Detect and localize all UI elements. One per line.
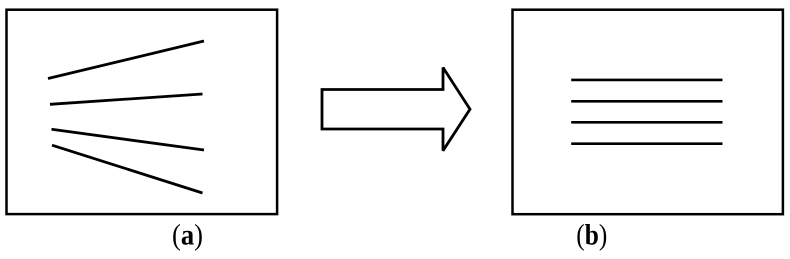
parallel line 3 — [571, 121, 722, 124]
parallel line 1 (top) — [571, 79, 722, 82]
fan line 1 (top) — [48, 41, 204, 79]
fan line 2 — [50, 94, 203, 104]
svg-text:(a): (a) — [172, 219, 203, 252]
fan line 3 — [52, 129, 205, 150]
box (a) frame — [7, 10, 278, 214]
fan line 4 (bottom) — [52, 145, 203, 193]
parallel line 2 — [571, 100, 722, 103]
box (b) frame — [513, 10, 783, 215]
svg-text:(b): (b) — [576, 219, 607, 252]
parallel line 4 (bottom) — [571, 142, 722, 145]
block arrow — [322, 68, 470, 151]
